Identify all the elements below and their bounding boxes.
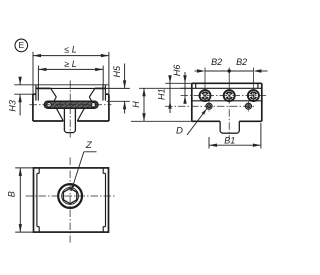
svg-text:Z: Z bbox=[85, 140, 93, 151]
pin hole left bbox=[206, 103, 212, 109]
svg-text:B2: B2 bbox=[211, 57, 222, 67]
svg-text:≤ L: ≤ L bbox=[64, 44, 76, 54]
extension line block top for H1 bbox=[165, 82, 192, 84]
centerline screw row bbox=[181, 95, 267, 97]
top view body bbox=[34, 168, 109, 232]
extension line B2 mid bbox=[228, 68, 230, 84]
svg-text:H: H bbox=[131, 101, 141, 108]
top view vertical centerline bbox=[69, 158, 71, 243]
svg-text:B2: B2 bbox=[236, 57, 247, 67]
dimension H1 bbox=[156, 75, 171, 113]
side view block bbox=[192, 83, 262, 121]
clamping bar with hatched insert bbox=[44, 101, 98, 108]
svg-text:H6: H6 bbox=[172, 65, 182, 77]
centerline pin row bbox=[165, 105, 255, 107]
dimension B bbox=[6, 168, 22, 232]
stem bbox=[56, 108, 84, 132]
front horizontal centerline bbox=[30, 104, 112, 106]
top view horizontal centerline bbox=[26, 195, 117, 197]
extension line B2 right bbox=[252, 68, 254, 84]
centerline screw2 vertical bbox=[228, 83, 230, 139]
svg-text:H5: H5 bbox=[112, 65, 122, 77]
svg-text:B1: B1 bbox=[224, 135, 235, 145]
dimension ≥L bbox=[38, 59, 103, 71]
pin hole right bbox=[245, 103, 251, 109]
extension line block serration for H6 bbox=[181, 87, 192, 89]
centerline pin right vertical bbox=[247, 101, 249, 112]
extension line B2 left bbox=[204, 68, 206, 84]
label D with leader bbox=[176, 109, 207, 137]
svg-text:H1: H1 bbox=[156, 89, 166, 101]
svg-text:B: B bbox=[6, 191, 16, 197]
screw 1 bbox=[200, 90, 211, 101]
dimension B1 bbox=[209, 135, 261, 147]
tenon bbox=[220, 121, 239, 133]
svg-text:D: D bbox=[176, 126, 183, 137]
svg-text:E: E bbox=[19, 40, 25, 50]
label Z with leader bbox=[71, 140, 96, 191]
dimension H6 bbox=[172, 65, 187, 104]
view marker E bbox=[15, 39, 28, 52]
dimension H bbox=[131, 88, 146, 121]
extension lines ≤L bbox=[33, 52, 109, 94]
centerline screw1 vertical bbox=[204, 83, 206, 101]
extension lines B1 bbox=[209, 123, 261, 149]
extension lines B bbox=[15, 168, 33, 232]
extension line body top for H5 bbox=[105, 87, 129, 89]
central boss with hex socket bbox=[58, 184, 82, 208]
svg-text:≥ L: ≥ L bbox=[64, 59, 76, 69]
dimension H5 bbox=[112, 64, 127, 114]
centerline pin left vertical bbox=[208, 101, 210, 112]
extension line bar top for H5 bbox=[107, 100, 130, 102]
front view body bbox=[14, 85, 109, 121]
centerline screw3 vertical bbox=[252, 83, 254, 101]
dimension B2 B2 bbox=[195, 57, 268, 73]
screw 3 bbox=[248, 90, 259, 101]
front vertical centerline bbox=[69, 81, 71, 138]
extension lines for H bbox=[131, 88, 192, 121]
dimension ≤L bbox=[33, 44, 109, 57]
dimension H3 bbox=[8, 77, 22, 116]
extension lines ≥L bbox=[38, 66, 103, 85]
wedge slot slants bbox=[51, 88, 95, 101]
svg-text:H3: H3 bbox=[8, 100, 18, 112]
screw 2 bbox=[224, 90, 235, 101]
